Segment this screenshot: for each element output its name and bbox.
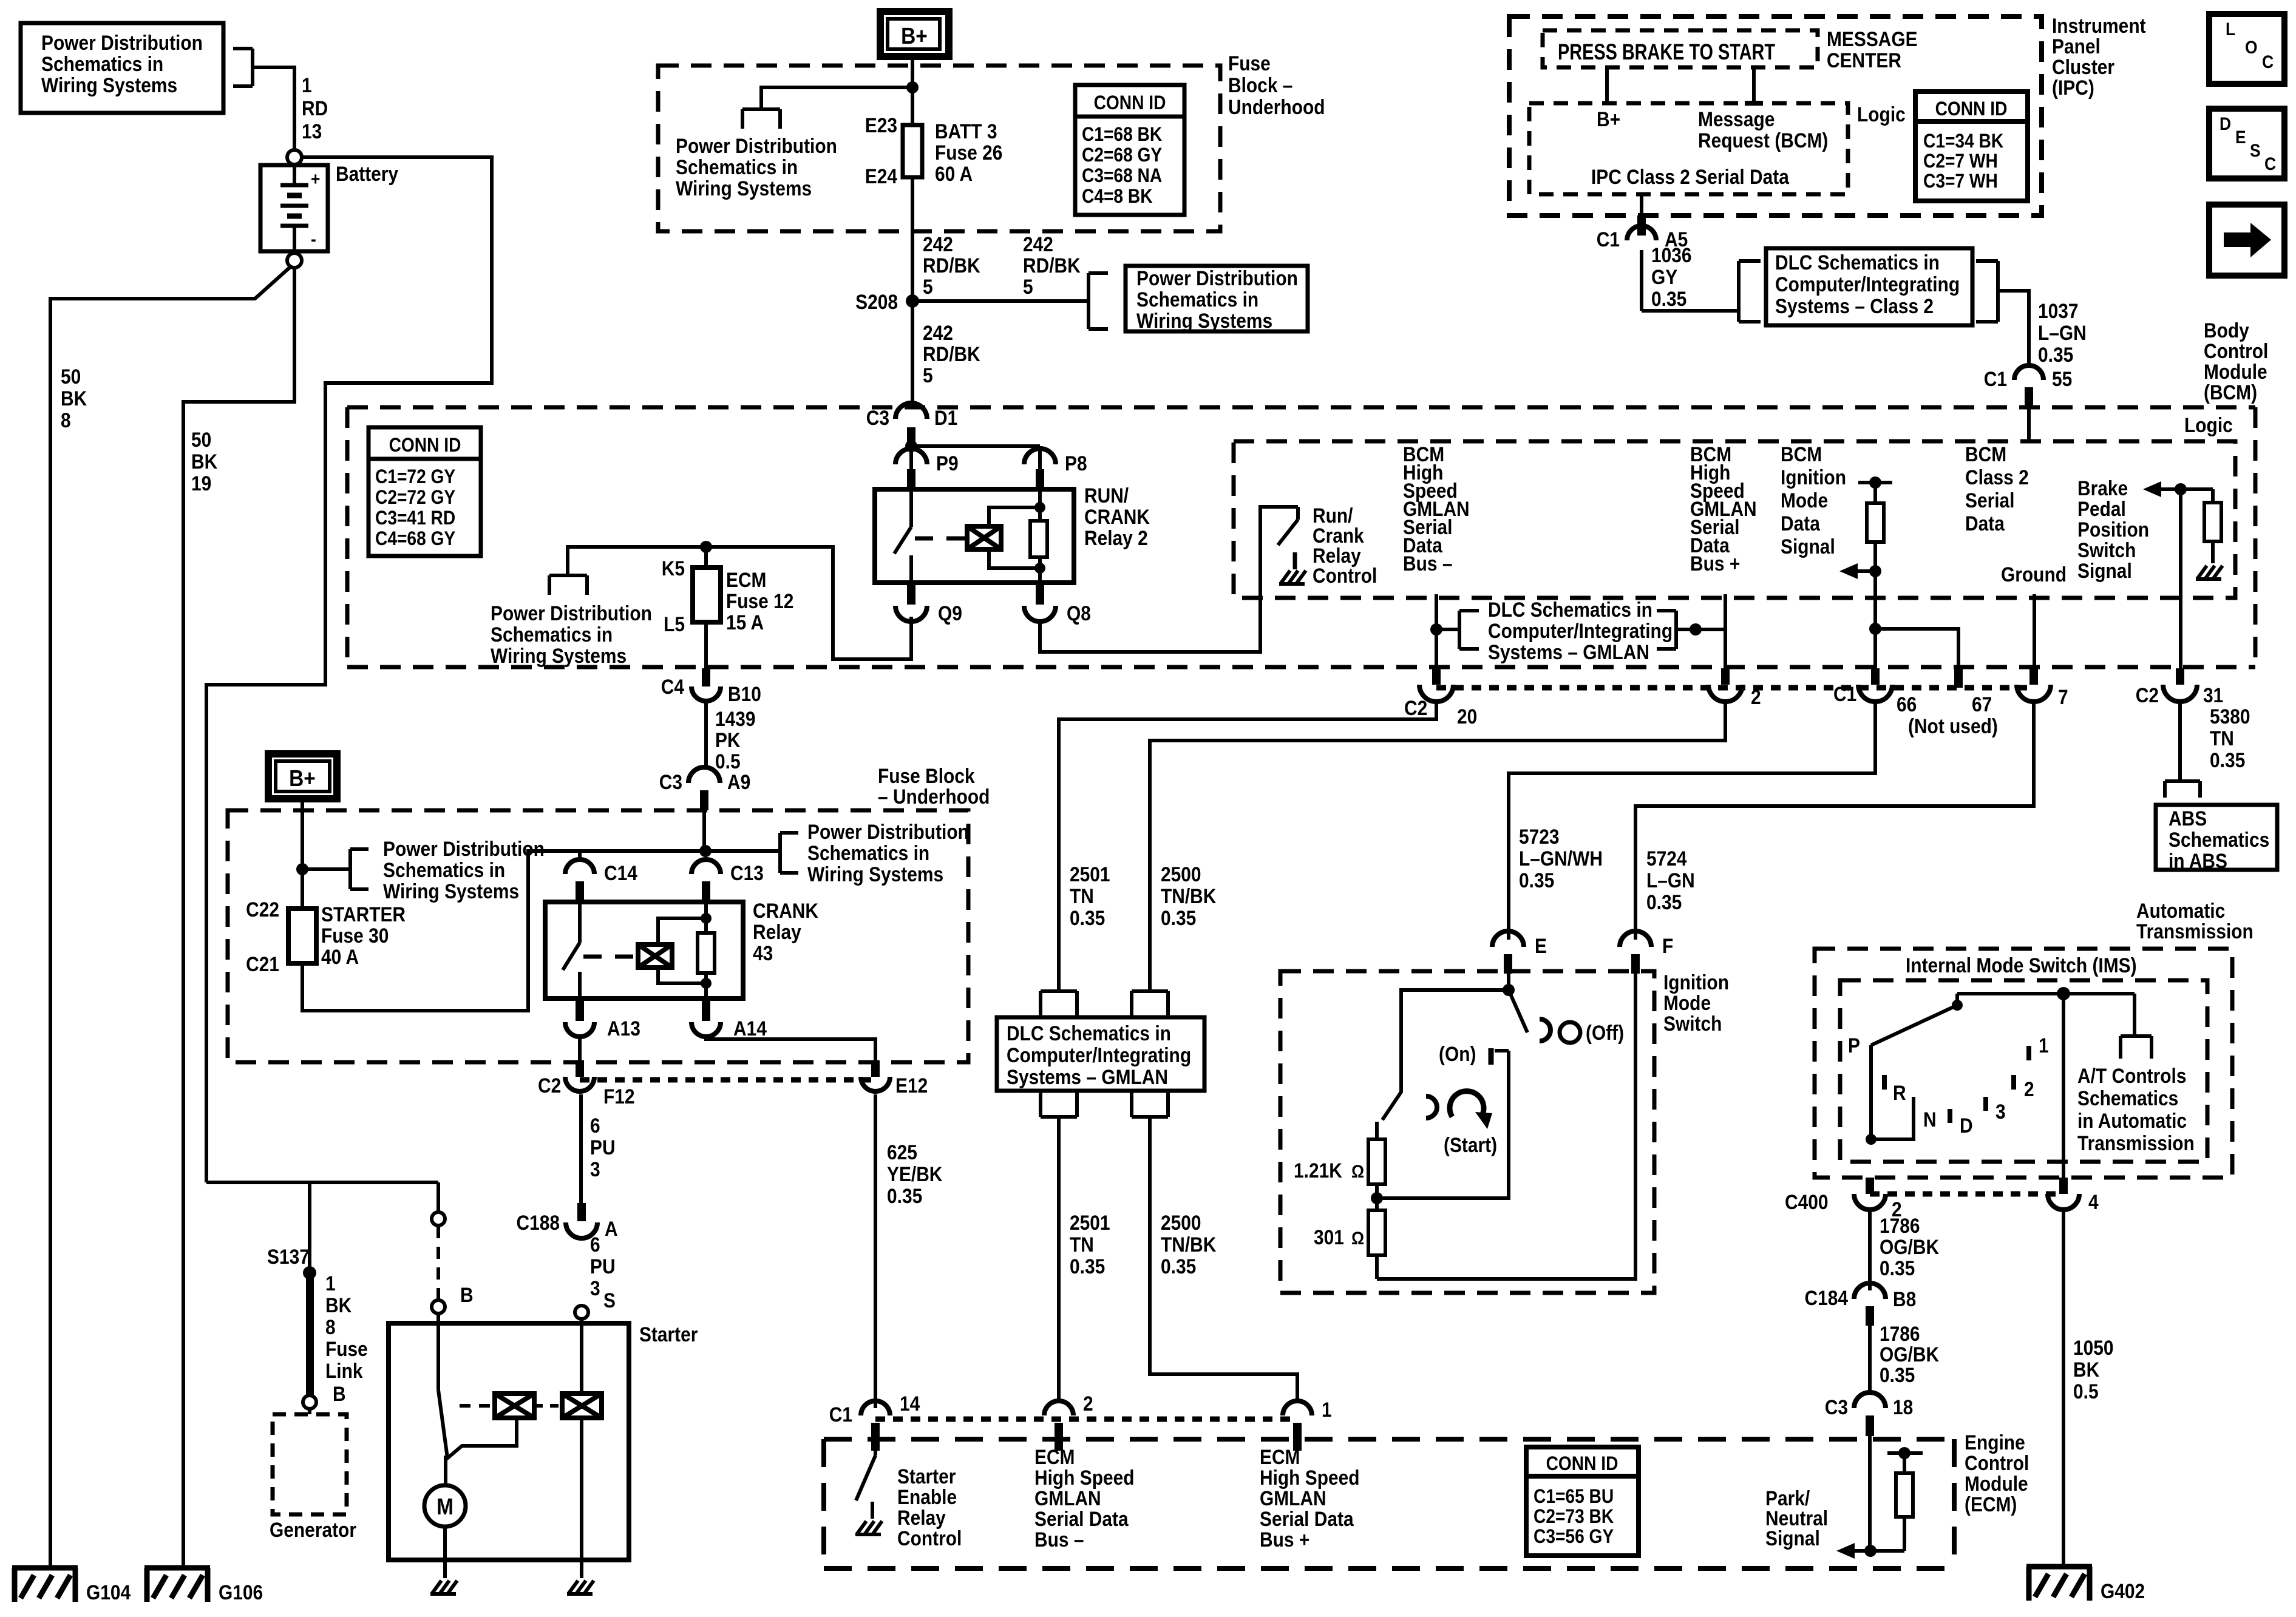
svg-text:TN/BK: TN/BK (1161, 1233, 1216, 1256)
svg-text:Power Distribution: Power Distribution (676, 134, 837, 157)
svg-text:Wiring Systems: Wiring Systems (41, 73, 177, 97)
logic label (2184, 413, 2233, 436)
svg-text:BK: BK (191, 450, 217, 473)
svg-text:S208: S208 (855, 290, 898, 313)
svg-text:Fuse: Fuse (325, 1337, 368, 1360)
svg-text:0.35: 0.35 (1161, 1255, 1196, 1278)
wire C4 to C3 A9 (704, 702, 708, 768)
svg-text:S137: S137 (267, 1245, 310, 1268)
wire label 6 PU 3 (lower) (590, 1233, 616, 1300)
bracket power dist 5 (780, 833, 798, 873)
svg-text:DLC Schematics in: DLC Schematics in (1488, 598, 1652, 621)
IMS tick 3 (1986, 1097, 2006, 1123)
svg-text:CONN ID: CONN ID (1546, 1453, 1618, 1474)
automatic transmission label (2136, 899, 2254, 943)
svg-text:Bus +: Bus + (1690, 552, 1740, 575)
svg-text:50: 50 (191, 428, 211, 451)
press brake to start text (1558, 40, 1775, 65)
svg-text:P8: P8 (1065, 452, 1087, 475)
connector row dotted (ECM) (875, 1417, 1297, 1422)
svg-text:Link: Link (325, 1359, 363, 1382)
bracket to ABS box (2165, 781, 2200, 798)
fuse link labels (325, 1272, 368, 1405)
svg-text:L–GN: L–GN (1646, 869, 1695, 892)
svg-text:Signal: Signal (2077, 559, 2132, 582)
ground G402 (2026, 1567, 2145, 1602)
svg-text:C3: C3 (1825, 1395, 1848, 1419)
svg-text:C3=56 GY: C3=56 GY (1533, 1526, 1614, 1547)
svg-text:L: L (2226, 18, 2235, 39)
IPC logic box (dashed) (1529, 103, 1848, 194)
run/crank relay 2 box (875, 489, 1074, 583)
svg-text:Q8: Q8 (1067, 602, 1091, 625)
svg-text:Message: Message (1698, 107, 1775, 131)
svg-text:3: 3 (590, 1158, 600, 1181)
connector row dotted (C400) (1870, 1192, 2063, 1197)
svg-text:(BCM): (BCM) (2204, 381, 2257, 404)
splice S137 (267, 1182, 316, 1280)
connector E12 (861, 1060, 928, 1097)
svg-text:Bus +: Bus + (1260, 1528, 1309, 1551)
svg-text:B+: B+ (1597, 107, 1620, 131)
svg-text:BK: BK (2073, 1358, 2099, 1381)
A/T controls label (2077, 1064, 2195, 1154)
wire S137 horizontal (206, 1181, 438, 1184)
svg-text:Computer/Integrating: Computer/Integrating (1007, 1043, 1191, 1066)
svg-text:GMLAN: GMLAN (1034, 1486, 1101, 1510)
svg-text:Battery: Battery (336, 162, 398, 185)
ignition switch right branch (1371, 1051, 1509, 1204)
svg-text:– Underhood: – Underhood (878, 785, 990, 808)
bracket DLC gmlan left (1436, 611, 1479, 649)
svg-text:High Speed: High Speed (1034, 1466, 1135, 1489)
svg-text:C2=72 GY: C2=72 GY (375, 487, 455, 508)
svg-text:Schematics in: Schematics in (41, 52, 163, 75)
svg-text:E: E (2235, 126, 2246, 147)
IMS P wire (1866, 1045, 1914, 1145)
wire label 242 RD/BK 5 (above S208) (923, 232, 980, 298)
svg-text:A9: A9 (727, 770, 750, 793)
svg-text:Ignition: Ignition (1781, 466, 1846, 489)
svg-text:Wiring Systems: Wiring Systems (491, 644, 627, 667)
svg-text:C4=68 GY: C4=68 GY (375, 528, 455, 549)
svg-text:C1=34 BK: C1=34 BK (1923, 131, 2003, 152)
crank relay 43 box (545, 902, 743, 998)
svg-text:CENTER: CENTER (1827, 49, 1901, 72)
battery negative terminal (287, 253, 302, 268)
ground starter solenoid (567, 1581, 594, 1594)
ground G106 (144, 1568, 263, 1604)
svg-text:Wiring Systems: Wiring Systems (383, 880, 519, 903)
wire hold-in winding down (580, 1418, 583, 1578)
BCM logic inner dashed box (1234, 441, 2235, 598)
connector C1 pin 55 (1984, 365, 2073, 408)
svg-text:B+: B+ (289, 765, 316, 791)
svg-text:C3=7 WH: C3=7 WH (1923, 171, 1998, 192)
connector C2 pin 20 (1404, 668, 1477, 728)
svg-text:in Automatic: in Automatic (2077, 1109, 2187, 1132)
junction dot above ECM fuse (700, 541, 712, 553)
svg-text:43: 43 (753, 941, 773, 964)
BCM gmlan bus plus wire (1724, 594, 1727, 668)
IMS label N (1923, 1108, 1937, 1131)
svg-text:C: C (2264, 153, 2276, 174)
svg-text:Fuse 12: Fuse 12 (726, 589, 793, 612)
battery positive terminal (287, 150, 302, 164)
IMS tick 1 (2029, 1034, 2049, 1060)
svg-text:PK: PK (715, 728, 741, 751)
ignition mode switch label (1663, 971, 1729, 1035)
ECM gmlan bus minus label (1034, 1445, 1135, 1551)
connector C188 pin A (516, 1203, 617, 1240)
wire label 6 PU 3 (upper) (590, 1114, 616, 1181)
svg-text:0.35: 0.35 (1519, 869, 1554, 892)
connector row dotted line (BCM) (1436, 685, 2034, 691)
svg-text:C2: C2 (2136, 683, 2159, 707)
svg-text:0.35: 0.35 (1161, 906, 1196, 929)
fuse ECM Fuse 12 15A (662, 547, 794, 668)
svg-text:Systems – Class 2: Systems – Class 2 (1775, 294, 1934, 317)
svg-text:N: N (1923, 1108, 1937, 1131)
svg-text:Class 2: Class 2 (1965, 466, 2029, 489)
wire 2500 upper (1150, 702, 1725, 991)
svg-text:Wiring Systems: Wiring Systems (676, 177, 812, 200)
bracket power dist 6 (302, 849, 369, 889)
svg-text:Panel: Panel (2052, 35, 2101, 58)
terminal circle S starter (575, 1289, 616, 1319)
svg-text:301: 301 (1314, 1225, 1344, 1249)
svg-text:L5: L5 (664, 612, 685, 636)
ignition switch start branch (1382, 990, 1509, 1120)
svg-text:CONN ID: CONN ID (389, 435, 461, 456)
svg-text:MESSAGE: MESSAGE (1827, 27, 1918, 50)
svg-text:IPC Class 2 Serial Data: IPC Class 2 Serial Data (1591, 165, 1790, 188)
wire label 1050 BK 0.5 (2073, 1336, 2114, 1403)
svg-text:Ω: Ω (1351, 1227, 1364, 1248)
crank relay switch (563, 902, 580, 998)
message request label (1698, 107, 1828, 152)
svg-text:(On): (On) (1439, 1042, 1476, 1065)
svg-text:Control: Control (897, 1527, 962, 1550)
fuse block underhood box 3 (dashed) (228, 810, 968, 1062)
svg-text:TN: TN (1070, 1233, 1094, 1256)
starter enable relay switch (856, 1451, 875, 1500)
svg-text:1: 1 (1322, 1398, 1332, 1421)
text power distribution schematics 4 (491, 602, 652, 667)
svg-text:Signal: Signal (1765, 1527, 1820, 1550)
wire label 2500 TN/BK 0.35 (upper) (1161, 863, 1216, 929)
svg-text:F12: F12 (603, 1085, 635, 1108)
wire press brake to message request (1745, 67, 1763, 103)
svg-text:C4=8 BK: C4=8 BK (1082, 186, 1153, 207)
wire label 1786 OG/BK 0.35 (upper) (1880, 1214, 1939, 1280)
bracket DLC class 2 right (1976, 261, 1998, 322)
IMS P blade (1848, 994, 1963, 1057)
svg-text:1037: 1037 (2038, 299, 2079, 322)
svg-text:F: F (1662, 934, 1673, 957)
connector F (1620, 931, 1673, 974)
connector pin 2 (ECM) (1044, 1392, 1093, 1451)
svg-text:B+: B+ (901, 23, 928, 49)
svg-text:242: 242 (923, 321, 953, 344)
wire motor to ground (0, 0, 1, 1)
conn id table 3 (1526, 1447, 1639, 1556)
svg-text:BCM: BCM (1781, 442, 1822, 466)
svg-text:K5: K5 (662, 557, 685, 580)
svg-text:Transmission: Transmission (2077, 1131, 2195, 1154)
svg-text:BCM: BCM (1965, 442, 2006, 466)
svg-text:C3=41 RD: C3=41 RD (375, 507, 455, 529)
IMS tick 2 (2014, 1075, 2034, 1100)
svg-text:Module: Module (1965, 1472, 2028, 1495)
svg-text:Body: Body (2204, 319, 2249, 342)
svg-text:Brake: Brake (2077, 476, 2128, 500)
IMS main wire down (2062, 994, 2065, 1178)
svg-text:C3: C3 (659, 770, 682, 793)
text power distribution schematics 5 (807, 820, 969, 886)
crank coil parallel wires (658, 918, 706, 983)
B+ symbol 2 (268, 754, 337, 799)
wire label 1786 OG/BK 0.35 (lower) (1880, 1322, 1939, 1386)
resistor 301 (1314, 1210, 1385, 1279)
svg-text:C3=68 NA: C3=68 NA (1082, 165, 1162, 186)
pin 67 stub (not used) (1908, 668, 1998, 737)
svg-text:ABS: ABS (2169, 807, 2207, 830)
svg-text:C1=72 GY: C1=72 GY (375, 466, 455, 487)
DLC class 2 reference box (1766, 248, 1972, 325)
svg-text:PU: PU (590, 1136, 616, 1159)
bracket DLC class 2 left (1739, 261, 1761, 322)
svg-text:YE/BK: YE/BK (887, 1162, 942, 1185)
svg-text:A/T Controls: A/T Controls (2077, 1064, 2186, 1087)
wire B+ to starter fuse (296, 799, 308, 909)
svg-text:Engine: Engine (1965, 1431, 2025, 1454)
svg-text:14: 14 (900, 1392, 920, 1415)
run/crank relay resistor (1030, 489, 1047, 583)
svg-text:Schematics in: Schematics in (676, 155, 798, 178)
svg-text:2: 2 (1083, 1392, 1093, 1415)
svg-text:C3: C3 (866, 406, 889, 429)
ignition switch off blade (1509, 990, 1527, 1032)
ignition switch on tick (1439, 1042, 1491, 1065)
starter hold-in winding (562, 1394, 602, 1418)
svg-text:60 A: 60 A (935, 162, 973, 185)
svg-text:CONN ID: CONN ID (1094, 92, 1166, 114)
svg-text:PU: PU (590, 1255, 616, 1278)
svg-text:0.35: 0.35 (1646, 890, 1682, 914)
connector C4 pin B10 (661, 668, 761, 705)
off-page bracket 4 (549, 575, 587, 595)
svg-text:Ω: Ω (1351, 1161, 1364, 1181)
svg-text:DLC Schematics in: DLC Schematics in (1775, 251, 1940, 274)
svg-text:6: 6 (590, 1114, 600, 1137)
svg-text:Control: Control (2204, 339, 2268, 362)
connector pin 1 (ECM) (1283, 1398, 1332, 1451)
wire C400 to C184 (1868, 1211, 1872, 1290)
svg-text:0.35: 0.35 (2210, 748, 2245, 771)
svg-text:Internal Mode Switch (IMS): Internal Mode Switch (IMS) (1906, 954, 2137, 977)
svg-text:67: 67 (1972, 693, 1992, 716)
svg-text:2500: 2500 (1161, 1211, 1201, 1234)
connector pin 7 (BCM) (2017, 668, 2068, 708)
ignition switch off circle (1560, 1021, 1624, 1044)
svg-text:Pedal: Pedal (2077, 497, 2126, 520)
svg-text:(IPC): (IPC) (2052, 76, 2094, 99)
svg-text:OG/BK: OG/BK (1880, 1343, 1939, 1366)
wire to starter B terminal (436, 1182, 440, 1212)
svg-text:E24: E24 (865, 164, 897, 188)
svg-text:P: P (1848, 1034, 1860, 1057)
svg-text:C2=7 WH: C2=7 WH (1923, 151, 1998, 172)
svg-text:A13: A13 (607, 1017, 640, 1040)
conn id table 1 (1075, 85, 1184, 215)
LOC box (2209, 14, 2284, 84)
svg-text:RD: RD (302, 97, 328, 120)
svg-text:ECM: ECM (1034, 1445, 1075, 1468)
wire 2501 upper (1059, 702, 1436, 991)
svg-text:C400: C400 (1785, 1190, 1829, 1213)
starter pull-in winding (495, 1394, 534, 1418)
svg-text:BK: BK (325, 1293, 352, 1317)
svg-text:1036: 1036 (1651, 243, 1692, 266)
bracket below DLC gmlan box left (1041, 1091, 1077, 1117)
bracket A/T controls (2121, 994, 2152, 1059)
wire fuse link to generator (308, 1409, 311, 1414)
arrow box (2209, 205, 2284, 276)
svg-text:G402: G402 (2101, 1579, 2145, 1602)
svg-text:1: 1 (2039, 1034, 2049, 1057)
svg-text:5724: 5724 (1646, 847, 1687, 870)
svg-text:Signal: Signal (1781, 535, 1835, 558)
wire C1 A5 to DLC class 2 (1642, 250, 1739, 311)
svg-text:in ABS: in ABS (2169, 849, 2227, 872)
splice circle starter feed (432, 1212, 445, 1225)
wire 2500 lower (1150, 1117, 1297, 1402)
terminal circle fuse link B (303, 1395, 316, 1409)
svg-text:-: - (311, 228, 316, 249)
svg-text:Schematics in: Schematics in (1136, 288, 1258, 311)
svg-text:Schematics in: Schematics in (807, 841, 929, 864)
svg-text:1050: 1050 (2073, 1336, 2114, 1359)
svg-text:Logic: Logic (2184, 413, 2233, 436)
starter enable relay label (897, 1465, 962, 1550)
svg-text:Computer/Integrating: Computer/Integrating (1775, 273, 1960, 296)
bracket DLC gmlan right (1657, 611, 1725, 649)
svg-text:Serial: Serial (1965, 489, 2014, 512)
splice S208 (855, 290, 919, 313)
svg-text:R: R (1893, 1081, 1906, 1104)
svg-text:Power Distribution: Power Distribution (491, 602, 652, 625)
wire label 1036 GY 0.35 (1651, 243, 1692, 310)
wire A14 to E12 (706, 1038, 875, 1060)
svg-text:Bus –: Bus – (1403, 552, 1452, 575)
svg-text:5: 5 (923, 364, 933, 387)
svg-text:242: 242 (1023, 232, 1053, 256)
wire switch to motor (443, 1527, 447, 1578)
svg-text:CRANK: CRANK (1084, 505, 1150, 528)
svg-text:Position: Position (2077, 518, 2149, 541)
svg-text:Serial Data: Serial Data (1034, 1507, 1129, 1530)
svg-text:E12: E12 (895, 1074, 928, 1097)
starter box (389, 1323, 698, 1560)
wire label 242 RD/BK 5 (below S208) (923, 321, 980, 387)
wire label 50 BK 8 (61, 365, 87, 432)
svg-text:L–GN: L–GN (2038, 321, 2087, 344)
svg-text:1786: 1786 (1880, 1214, 1920, 1237)
svg-text:D: D (1960, 1114, 1973, 1137)
connector C3 pin 18 (1825, 1392, 1914, 1436)
svg-text:19: 19 (191, 472, 211, 495)
svg-text:Request (BCM): Request (BCM) (1698, 129, 1828, 152)
svg-text:7: 7 (2058, 685, 2068, 708)
svg-text:Module: Module (2204, 360, 2267, 383)
svg-text:20: 20 (1457, 705, 1477, 728)
wire C2 F12 to C188 (579, 1094, 583, 1204)
park neutral branch (1836, 1436, 1923, 1559)
crank relay coil (638, 944, 672, 968)
generator box (dashed) (273, 1414, 347, 1514)
svg-text:Systems – GMLAN: Systems – GMLAN (1488, 640, 1649, 663)
svg-text:0.35: 0.35 (1880, 1363, 1915, 1386)
connector pin 2 (BCM) (1708, 668, 1761, 708)
wire A13 to C2 F12 (578, 1038, 582, 1060)
svg-text:Fuse 26: Fuse 26 (935, 141, 1002, 164)
svg-text:C2=68 GY: C2=68 GY (1082, 144, 1162, 166)
svg-text:A14: A14 (733, 1017, 767, 1040)
wire S208 branch right (912, 299, 1089, 303)
IMS top wire (1957, 987, 2135, 1000)
svg-text:Wiring Systems: Wiring Systems (807, 863, 943, 886)
svg-text:C: C (2262, 51, 2274, 72)
svg-text:Ignition: Ignition (1663, 971, 1729, 994)
BCM class 2 serial data label (1965, 442, 2029, 535)
wire label 5724 L-GN 0.35 (1646, 847, 1695, 914)
svg-text:D: D (2220, 113, 2231, 134)
fuse block / BCM outer dashed box (347, 407, 2255, 667)
svg-text:C2=73 BK: C2=73 BK (1533, 1506, 1614, 1527)
wire branch to power distribution ref (761, 87, 912, 109)
connector C400 pin 2 (1785, 1178, 1902, 1221)
wire C3 D1 down (909, 439, 913, 446)
svg-text:TN: TN (1070, 884, 1094, 907)
svg-text:C2: C2 (1404, 696, 1427, 719)
bracket above DLC gmlan box right (1132, 991, 1168, 1017)
b+ label IPC (1597, 107, 1620, 131)
svg-text:TN: TN (2210, 727, 2234, 750)
svg-text:5: 5 (923, 275, 933, 298)
svg-text:Fuse 30: Fuse 30 (321, 924, 389, 947)
svg-text:Power Distribution: Power Distribution (807, 820, 969, 843)
connector C1 pin A5 (1597, 226, 1688, 255)
junction dot above fuse 26 (906, 81, 919, 93)
svg-text:Q9: Q9 (938, 602, 962, 625)
connector C3 pin D1 (866, 403, 957, 446)
svg-text:B: B (333, 1382, 346, 1405)
svg-text:Schematics in: Schematics in (383, 858, 505, 881)
svg-text:G104: G104 (86, 1581, 131, 1604)
svg-text:Relay: Relay (897, 1506, 946, 1529)
power distribution reference box 3 (1126, 266, 1308, 332)
svg-text:D1: D1 (934, 406, 957, 429)
wire label 625 YE/BK 0.35 (887, 1141, 942, 1207)
svg-text:RD/BK: RD/BK (923, 342, 980, 365)
svg-text:OG/BK: OG/BK (1880, 1235, 1939, 1258)
ECM dashed box (824, 1439, 1954, 1568)
ignition switch E wire (1503, 974, 1515, 996)
wire battery positive feed loop (206, 157, 492, 1182)
bracket above DLC gmlan box left (1041, 991, 1077, 1017)
svg-text:Logic: Logic (1857, 103, 1906, 126)
